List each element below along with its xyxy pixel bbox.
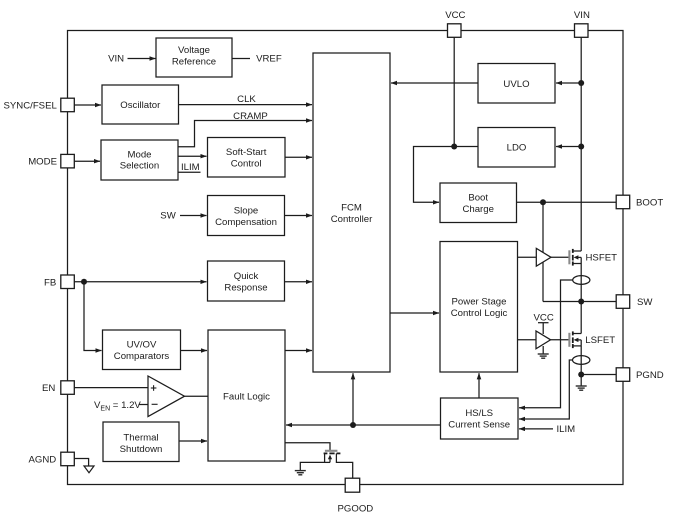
svg-text:EN: EN <box>42 383 55 394</box>
svg-text:Reference: Reference <box>172 56 216 67</box>
svg-text:ILIM: ILIM <box>181 162 200 173</box>
svg-text:LDO: LDO <box>507 143 527 154</box>
svg-text:Control: Control <box>231 159 262 170</box>
svg-text:HSFET: HSFET <box>586 253 618 264</box>
svg-text:Voltage: Voltage <box>178 45 210 56</box>
svg-text:Selection: Selection <box>120 161 159 172</box>
svg-text:Soft-Start: Soft-Start <box>226 147 267 158</box>
svg-text:SYNC/FSEL: SYNC/FSEL <box>4 101 58 112</box>
svg-text:Thermal: Thermal <box>123 433 158 444</box>
svg-text:SW: SW <box>160 211 176 222</box>
svg-text:VIN: VIN <box>108 53 124 64</box>
svg-text:CLK: CLK <box>237 94 256 105</box>
svg-text:BOOT: BOOT <box>636 198 663 209</box>
svg-text:Boot: Boot <box>468 192 488 203</box>
svg-text:UV/OV: UV/OV <box>127 340 157 351</box>
svg-text:Controller: Controller <box>331 214 373 225</box>
svg-text:Shutdown: Shutdown <box>120 444 163 455</box>
svg-text:LSFET: LSFET <box>585 335 615 346</box>
svg-text:VEN = 1.2V: VEN = 1.2V <box>94 400 141 412</box>
svg-text:PGND: PGND <box>636 370 664 381</box>
svg-text:Fault Logic: Fault Logic <box>223 392 270 403</box>
svg-text:VIN: VIN <box>574 10 590 21</box>
svg-text:FCM: FCM <box>341 202 362 213</box>
svg-text:FB: FB <box>44 277 56 288</box>
svg-text:VCC: VCC <box>534 312 554 323</box>
svg-text:UVLO: UVLO <box>503 79 529 90</box>
svg-text:Oscillator: Oscillator <box>120 100 161 111</box>
svg-text:PGOOD: PGOOD <box>338 503 374 514</box>
svg-text:Response: Response <box>224 282 267 293</box>
svg-text:SW: SW <box>637 297 653 308</box>
svg-text:Slope: Slope <box>234 205 259 216</box>
svg-text:AGND: AGND <box>29 455 57 466</box>
svg-text:VREF: VREF <box>256 53 282 64</box>
svg-text:Control Logic: Control Logic <box>451 308 508 319</box>
svg-text:Compensation: Compensation <box>215 217 277 228</box>
svg-text:Power Stage: Power Stage <box>452 296 507 307</box>
svg-text:ILIM: ILIM <box>557 424 576 435</box>
svg-text:CRAMP: CRAMP <box>233 111 268 122</box>
svg-text:Current Sense: Current Sense <box>448 420 510 431</box>
svg-text:Mode: Mode <box>128 150 152 161</box>
svg-text:Quick: Quick <box>234 271 259 282</box>
svg-text:Charge: Charge <box>462 204 493 215</box>
svg-text:HS/LS: HS/LS <box>465 408 493 419</box>
svg-text:MODE: MODE <box>28 157 57 168</box>
svg-text:VCC: VCC <box>445 10 465 21</box>
svg-text:Comparators: Comparators <box>114 351 170 362</box>
